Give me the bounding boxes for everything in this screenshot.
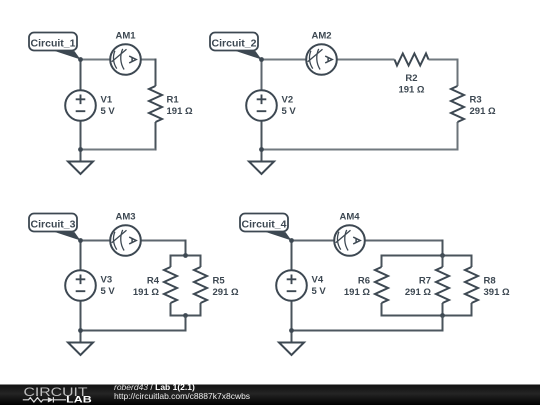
svg-text:191 Ω: 191 Ω xyxy=(133,287,159,298)
wire c4 bottom bar to rail xyxy=(442,316,444,332)
resistor R6 xyxy=(344,267,388,303)
wire AM3 to corner xyxy=(141,240,186,242)
wire bottom rail c1 xyxy=(81,149,156,151)
wire node4 down to V4 xyxy=(291,241,293,271)
resistor R2 xyxy=(395,54,429,96)
svg-text:R7: R7 xyxy=(419,276,431,287)
resistor R7 xyxy=(405,267,449,303)
svg-text:Circuit_1: Circuit_1 xyxy=(31,38,76,50)
wire node3 to AM3 xyxy=(81,240,111,242)
svg-text:V2: V2 xyxy=(282,95,294,106)
svg-text:http://circuitlab.com/c8887k7x: http://circuitlab.com/c8887k7x8cwbs xyxy=(114,391,250,401)
svg-text:291 Ω: 291 Ω xyxy=(405,287,431,298)
voltage source V1 xyxy=(65,90,115,121)
svg-text:5 V: 5 V xyxy=(101,286,116,297)
wire corner down to top bar c3 xyxy=(185,240,187,256)
wire R5 stubs xyxy=(200,255,202,317)
voltage source V2 xyxy=(246,90,296,121)
resistor R1 xyxy=(149,86,193,122)
wire R4 stubs xyxy=(170,255,172,317)
wire V2 to ground xyxy=(261,121,263,162)
svg-text:5 V: 5 V xyxy=(101,106,116,117)
ground circuit3 xyxy=(68,343,93,356)
svg-text:R3: R3 xyxy=(470,95,482,106)
junction dot circuit4 bottom xyxy=(289,328,294,333)
svg-text:Circuit_3: Circuit_3 xyxy=(31,219,76,231)
resistor R5 xyxy=(194,267,239,303)
svg-text:391 Ω: 391 Ω xyxy=(484,287,510,298)
svg-text:AM1: AM1 xyxy=(115,31,136,42)
wire AM1 to R1 corner xyxy=(141,59,156,61)
node label Circuit_1 xyxy=(29,33,83,62)
wire node2 down to V2 xyxy=(261,60,263,91)
ground circuit4 xyxy=(279,343,304,356)
ammeter AM4 xyxy=(334,212,365,256)
bottom bar parallel c4 xyxy=(382,315,472,317)
resistor R4 xyxy=(133,267,177,303)
wire node1 down to V1 xyxy=(80,60,82,91)
wire AM4 to corner xyxy=(365,240,443,242)
node label Circuit_2 xyxy=(210,33,264,62)
junction dot circuit2 bottom xyxy=(259,147,264,152)
wire R8 stubs xyxy=(471,255,473,317)
svg-text:191 Ω: 191 Ω xyxy=(167,106,193,117)
svg-text:AM4: AM4 xyxy=(339,212,360,223)
svg-text:V3: V3 xyxy=(101,275,113,286)
resistor R3 xyxy=(451,86,496,122)
wire bottom rail c4 xyxy=(292,330,443,332)
svg-text:R4: R4 xyxy=(147,276,160,287)
wire R1 top stub xyxy=(155,59,157,87)
ammeter AM1 xyxy=(110,31,141,75)
junction dot circuit1 bottom xyxy=(78,147,83,152)
wire node2 to AM2 xyxy=(262,59,307,61)
svg-text:Circuit_2: Circuit_2 xyxy=(212,38,257,50)
svg-text:AM3: AM3 xyxy=(115,212,135,223)
wire corner down to R3 xyxy=(457,59,459,87)
wire c3 bottom bar to rail xyxy=(185,316,187,332)
voltage source V4 xyxy=(276,270,326,301)
bottom bar parallel c3 xyxy=(171,315,201,317)
wire node3 down to V3 xyxy=(80,241,82,271)
node label Circuit_4 xyxy=(240,214,294,243)
svg-text:V1: V1 xyxy=(101,95,113,106)
junction dot c3 bottom bar xyxy=(183,313,188,318)
ground circuit1 xyxy=(68,162,93,175)
voltage source V3 xyxy=(65,270,115,301)
resistor R8 xyxy=(465,267,510,303)
wire AM2 to R2 xyxy=(337,59,395,61)
wire V1 to ground xyxy=(80,121,82,162)
wire V4 to ground xyxy=(291,301,293,343)
wire node1 to AM1 xyxy=(81,59,111,61)
wire R6 stubs xyxy=(381,255,383,317)
svg-text:R6: R6 xyxy=(358,276,370,287)
ammeter AM2 xyxy=(306,31,337,75)
svg-text:LAB: LAB xyxy=(66,395,92,405)
wire bottom rail c2 xyxy=(262,149,458,151)
svg-text:291 Ω: 291 Ω xyxy=(470,106,496,117)
junction dot circuit3 bottom xyxy=(78,328,83,333)
svg-text:Circuit_4: Circuit_4 xyxy=(242,219,287,231)
junction dot c3 top bar xyxy=(183,253,188,258)
footer bar xyxy=(0,385,540,405)
wire R3 bottom stub xyxy=(457,122,459,151)
svg-text:R1: R1 xyxy=(167,95,180,106)
svg-text:291 Ω: 291 Ω xyxy=(213,287,239,298)
top bar parallel c4 xyxy=(382,255,472,257)
wire V3 to ground xyxy=(80,301,82,343)
svg-text:191 Ω: 191 Ω xyxy=(398,85,424,96)
wire R2 to corner xyxy=(429,59,458,61)
wire bottom rail c3 xyxy=(81,330,186,332)
logo wire squiggle with resistor and diode xyxy=(23,397,66,402)
wire R1 bottom stub xyxy=(155,122,157,151)
junction dot c4 bottom bar xyxy=(440,313,445,318)
svg-text:5 V: 5 V xyxy=(312,286,327,297)
wire corner down to top bar c4 xyxy=(442,240,444,256)
ammeter AM3 xyxy=(110,212,141,256)
svg-text:R2: R2 xyxy=(405,73,417,84)
wire node4 to AM4 xyxy=(292,240,335,242)
top bar parallel c3 xyxy=(171,255,201,257)
ground circuit2 xyxy=(249,162,274,175)
svg-text:5 V: 5 V xyxy=(282,106,297,117)
svg-text:191 Ω: 191 Ω xyxy=(344,287,370,298)
junction dot c4 top bar xyxy=(440,253,445,258)
wire R7 stubs xyxy=(442,255,444,317)
node label Circuit_3 xyxy=(29,214,83,243)
svg-text:R5: R5 xyxy=(213,276,226,287)
svg-text:AM2: AM2 xyxy=(311,31,331,42)
svg-text:R8: R8 xyxy=(484,276,496,287)
svg-text:V4: V4 xyxy=(312,275,324,286)
